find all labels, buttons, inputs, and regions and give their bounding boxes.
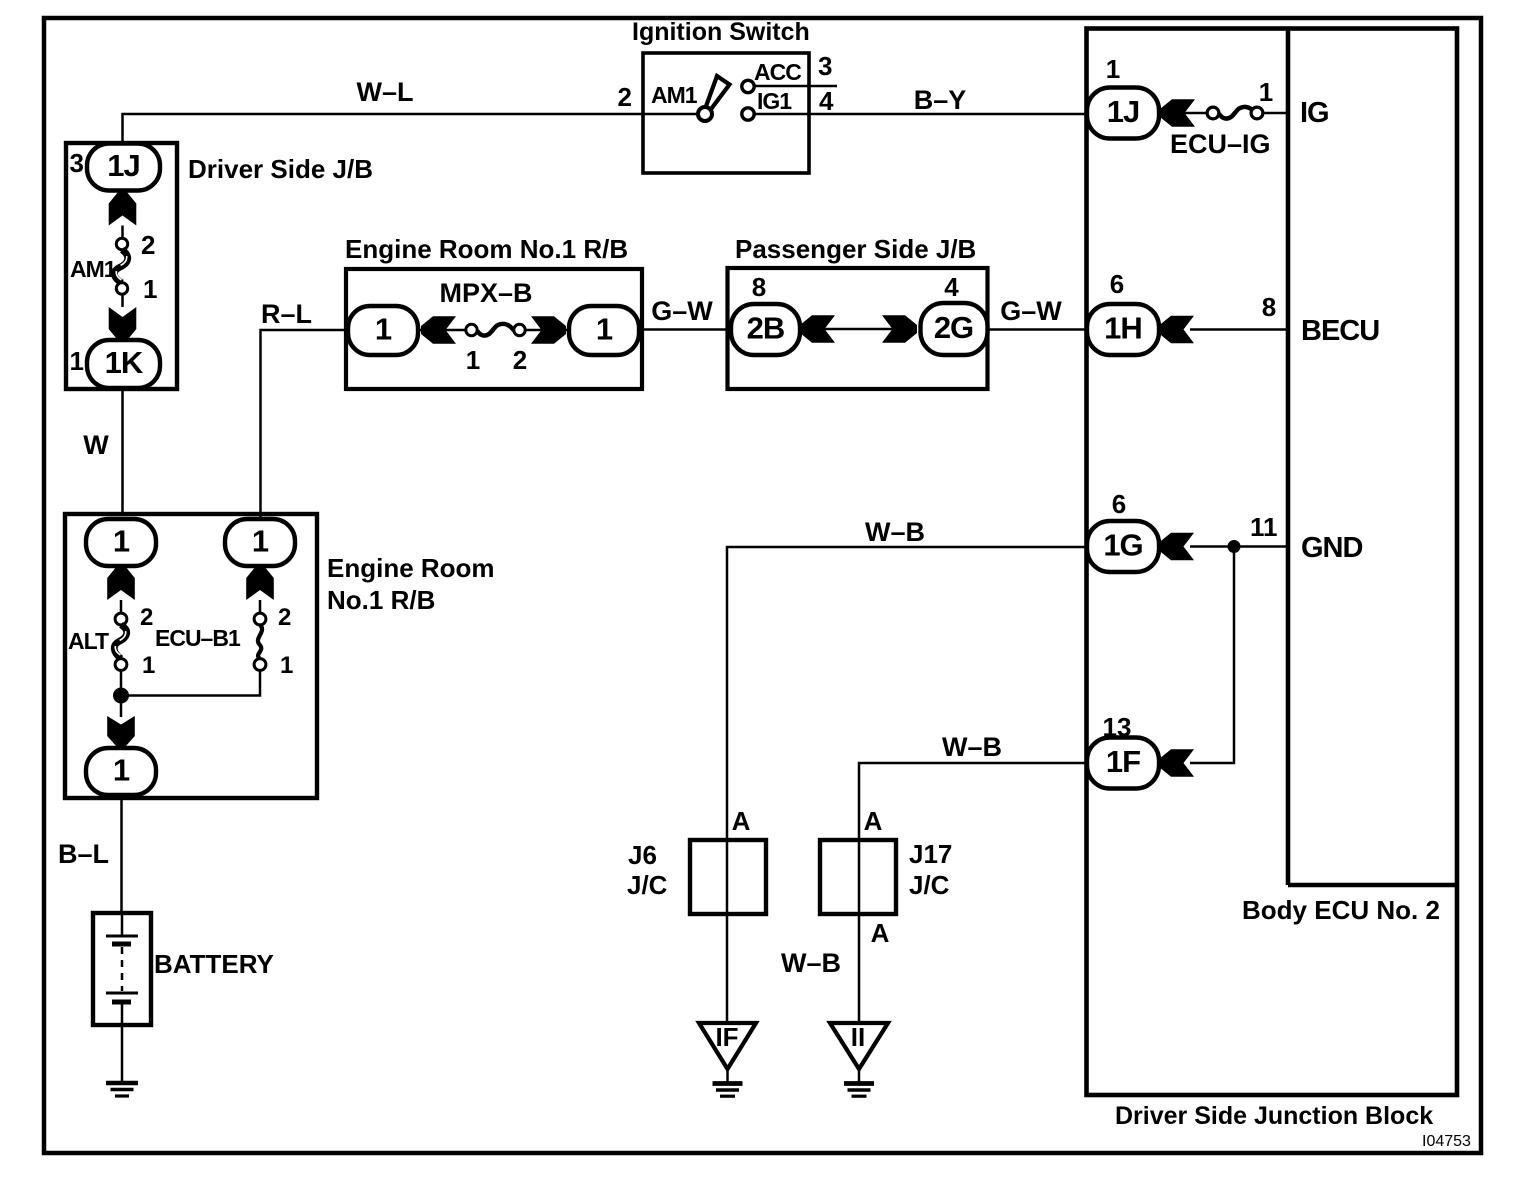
switch lever <box>705 76 730 112</box>
svg-text:8: 8 <box>752 272 766 302</box>
arrow left into connector 1G <box>1159 533 1194 561</box>
arrow up into right connector 1 <box>246 566 274 600</box>
svg-text:1: 1 <box>375 312 392 347</box>
svg-text:A: A <box>732 806 751 836</box>
svg-text:AM1: AM1 <box>70 256 117 282</box>
svg-text:BATTERY: BATTERY <box>154 949 274 979</box>
svg-text:W–B: W–B <box>781 948 841 978</box>
svg-text:A: A <box>864 806 883 836</box>
wire inside Passenger Side J/B <box>800 328 917 331</box>
battery <box>93 913 151 1025</box>
arrow right toward connector 1 <box>531 316 566 344</box>
svg-text:1: 1 <box>280 652 293 679</box>
svg-text:BECU: BECU <box>1301 315 1379 347</box>
svg-text:ACC: ACC <box>754 59 801 85</box>
wire from 1G to Body ECU GND terminal <box>1190 545 1288 548</box>
svg-text:6: 6 <box>1110 269 1124 299</box>
svg-text:1K: 1K <box>105 345 144 380</box>
Body ECU No. 2 block (divider and bottom edge) <box>1286 29 1291 886</box>
ground (IF) <box>713 1081 743 1086</box>
wire from battery to ground <box>121 1025 124 1082</box>
svg-text:1: 1 <box>252 524 269 559</box>
svg-text:2G: 2G <box>934 310 973 345</box>
connector 1K (Driver Side J/B) <box>87 340 160 388</box>
svg-text:4: 4 <box>944 272 959 302</box>
svg-text:No.1 R/B: No.1 R/B <box>327 585 435 615</box>
wire from fuse ALT down <box>120 670 123 717</box>
svg-text:B–L: B–L <box>58 839 109 869</box>
relay block Engine Room No.1 R/B (top) <box>346 269 642 389</box>
wire inside relay block <box>418 329 468 332</box>
wire W from 1K down to Engine Room No.1 R/B <box>121 389 124 516</box>
connector 1J (Driver Side J/B) <box>87 144 160 191</box>
svg-text:ECU–IG: ECU–IG <box>1170 129 1271 159</box>
wire <box>726 1069 729 1082</box>
svg-text:Engine Room: Engine Room <box>327 553 495 583</box>
switch pivot contact <box>698 107 712 121</box>
svg-text:G–W: G–W <box>1000 296 1062 326</box>
wire <box>858 1069 861 1082</box>
svg-text:J/C: J/C <box>627 870 668 900</box>
arrow left toward connector 1 <box>421 316 456 344</box>
svg-text:B–Y: B–Y <box>914 85 967 115</box>
wire B-L from Engine Room No.1 R/B to battery <box>120 798 123 913</box>
svg-text:1: 1 <box>1259 77 1273 107</box>
wire from fuse ECU-IG to Body ECU IG terminal <box>1263 112 1288 115</box>
svg-text:J17: J17 <box>909 839 952 869</box>
wire G-W from Passenger Side J/B to connector 1H <box>988 328 1088 331</box>
svg-text:1J: 1J <box>1107 94 1139 129</box>
connector 1G (Driver Side Junction Block) <box>1087 521 1159 572</box>
wire <box>121 294 124 307</box>
svg-text:1: 1 <box>113 524 130 559</box>
connector 1H (Driver Side Junction Block) <box>1087 304 1159 355</box>
svg-text:1: 1 <box>596 312 613 347</box>
svg-text:2: 2 <box>140 604 153 631</box>
wire <box>120 600 123 617</box>
connector 1 (bottom, Engine Room No.1 R/B) <box>86 748 156 795</box>
arrow left toward connector 2B <box>800 315 835 343</box>
wire W-B from J6 J/C to connector 1G <box>727 547 1087 1023</box>
svg-text:2: 2 <box>278 604 291 631</box>
svg-text:IF: IF <box>715 1022 738 1052</box>
wire from junction node down to 1F <box>1190 547 1234 764</box>
svg-text:2: 2 <box>513 345 527 375</box>
svg-text:2B: 2B <box>747 311 785 346</box>
wire inside switch from pin 2 to pivot <box>643 113 705 116</box>
svg-text:Ignition Switch: Ignition Switch <box>632 18 810 46</box>
svg-text:3: 3 <box>818 51 832 81</box>
svg-text:I04753: I04753 <box>1422 1133 1471 1150</box>
fuse ECU-B1 <box>254 613 266 625</box>
svg-text:A: A <box>871 918 890 948</box>
svg-text:11: 11 <box>1250 512 1278 542</box>
wire from 1H to Body ECU BECU terminal <box>1190 328 1288 331</box>
svg-text:W–B: W–B <box>942 732 1002 762</box>
fuse AM1 (Driver Side J/B) <box>116 238 127 249</box>
connector 1 (right, Engine Room No.1 R/B) <box>569 306 639 355</box>
arrow down into bottom connector 1 <box>107 716 135 747</box>
connector 1J (Driver Side Junction Block) <box>1087 88 1159 139</box>
svg-text:4: 4 <box>819 86 834 116</box>
svg-text:2: 2 <box>141 230 155 260</box>
ground (battery) <box>106 1081 138 1086</box>
wire from arrow to fuse ECU-IG <box>1184 112 1213 115</box>
connector 1 (top left, ALT branch) <box>86 519 156 566</box>
junction block Driver Side J/B <box>66 143 177 389</box>
svg-text:3: 3 <box>70 148 84 178</box>
svg-text:AM1: AM1 <box>651 82 698 108</box>
wire W-B from J17 J/C to connector 1F <box>859 763 1087 1023</box>
arrow right toward connector 2G <box>882 315 917 343</box>
ground point IF <box>699 1023 756 1069</box>
svg-text:1: 1 <box>113 753 130 788</box>
svg-text:J6: J6 <box>628 840 657 870</box>
svg-text:Engine Room No.1 R/B: Engine Room No.1 R/B <box>345 234 628 264</box>
junction block Driver Side Junction Block <box>1087 29 1458 1096</box>
svg-text:1H: 1H <box>1104 311 1142 346</box>
svg-text:2: 2 <box>618 82 632 112</box>
svg-text:GND: GND <box>1301 532 1363 564</box>
svg-text:1: 1 <box>70 346 84 376</box>
svg-text:MPX–B: MPX–B <box>439 278 532 308</box>
connector 1 (top right, ECU-B1 branch) <box>225 519 295 566</box>
wire <box>121 226 124 245</box>
svg-text:R–L: R–L <box>261 299 312 329</box>
svg-text:Driver Side Junction Block: Driver Side Junction Block <box>1115 1102 1433 1130</box>
arrow left into connector 1F <box>1159 749 1194 777</box>
arrow left into connector 1J <box>1160 99 1195 127</box>
junction block Passenger Side J/B <box>728 268 988 389</box>
svg-text:Passenger Side J/B: Passenger Side J/B <box>735 234 976 264</box>
svg-text:ECU–B1: ECU–B1 <box>155 625 241 651</box>
wire W-L from Driver Side J/B 1J to Ignition Switch pin 2 <box>123 114 644 143</box>
connector 2G (Passenger Side J/B) <box>921 303 988 355</box>
ground (II) <box>844 1081 874 1086</box>
svg-text:8: 8 <box>1262 292 1276 322</box>
wire <box>259 600 262 617</box>
arrow left into connector 1H <box>1159 316 1194 344</box>
svg-text:13: 13 <box>1103 712 1132 742</box>
svg-text:II: II <box>851 1022 865 1052</box>
svg-text:1: 1 <box>142 652 155 679</box>
wire from ACC contact to pin 3 <box>755 85 838 88</box>
junction node on GND wire <box>1228 540 1241 553</box>
svg-text:1F: 1F <box>1106 744 1140 779</box>
wire R-L from Engine Room No.1 R/B to ECU-B1 branch <box>261 330 349 517</box>
connector 2B (Passenger Side J/B) <box>731 304 800 355</box>
Ignition Switch box <box>643 53 809 173</box>
connector 1F (Driver Side Junction Block) <box>1087 738 1159 789</box>
wire from fuse ECU-B1 to junction <box>121 670 260 696</box>
wire G-W from Engine Room No.1 R/B to Passenger Side J/B <box>642 328 731 331</box>
wire B-Y from IG1 pin 4 to connector 1J of Driver Side Junction Block <box>755 113 1088 116</box>
svg-text:W: W <box>83 430 109 460</box>
svg-text:G–W: G–W <box>651 296 713 326</box>
arrow up into 1J <box>109 192 137 226</box>
svg-text:Driver Side J/B: Driver Side J/B <box>188 154 373 184</box>
svg-text:W–B: W–B <box>865 517 925 547</box>
fuse ALT <box>115 613 127 625</box>
svg-text:1: 1 <box>143 274 157 304</box>
svg-text:IG: IG <box>1300 97 1329 129</box>
svg-text:ALT: ALT <box>68 628 109 654</box>
svg-text:J/C: J/C <box>909 870 950 900</box>
svg-text:W–L: W–L <box>357 77 414 107</box>
svg-text:1G: 1G <box>1103 528 1142 563</box>
fuse ECU-IG <box>1207 107 1219 119</box>
junction connector J6 J/C <box>690 840 766 914</box>
arrow up into left connector 1 <box>107 566 135 600</box>
svg-text:Body ECU No. 2: Body ECU No. 2 <box>1242 895 1440 925</box>
svg-text:1: 1 <box>1106 54 1120 84</box>
svg-text:IG1: IG1 <box>757 88 792 114</box>
connector 1 (left, Engine Room No.1 R/B) <box>348 306 418 355</box>
arrow down into 1K <box>109 307 137 341</box>
junction connector J17 J/C <box>820 840 896 914</box>
junction node <box>113 688 129 704</box>
ground point II <box>830 1023 888 1069</box>
svg-text:1J: 1J <box>107 148 139 183</box>
relay block Engine Room No.1 R/B (lower) <box>65 514 317 798</box>
svg-text:1: 1 <box>466 345 480 375</box>
svg-text:6: 6 <box>1112 489 1126 519</box>
